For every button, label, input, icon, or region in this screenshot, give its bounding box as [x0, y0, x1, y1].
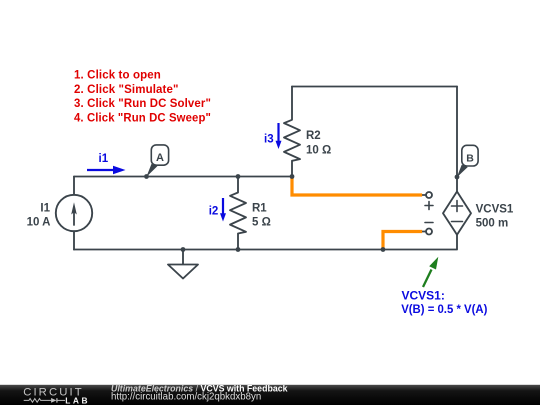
node A dot: [144, 174, 149, 179]
svg-text:500 m: 500 m: [476, 218, 509, 230]
svg-text:i3: i3: [264, 134, 274, 146]
wire top horizontal: [292, 86, 457, 88]
VCVS1 control plus label: [425, 202, 433, 210]
svg-text:R2: R2: [306, 130, 321, 142]
svg-text:i2: i2: [209, 206, 219, 218]
svg-text:A: A: [156, 152, 164, 164]
svg-text:I1: I1: [40, 202, 50, 214]
node B callout: [457, 145, 478, 177]
resistor R1: [230, 177, 246, 250]
current source I1 circle: [56, 195, 92, 231]
wire bottom horizontal: [74, 235, 457, 250]
svg-text:1. Click to open: 1. Click to open: [74, 70, 161, 82]
svg-text:2. Click "Simulate": 2. Click "Simulate": [74, 84, 179, 96]
VCVS1 control terminal nc+: [426, 192, 432, 198]
svg-text:V(B) = 0.5 * V(A): V(B) = 0.5 * V(A): [401, 302, 487, 316]
svg-text:10 Ω: 10 Ω: [306, 144, 331, 156]
current annotations blue: [87, 123, 282, 222]
wire right vertical to VCVS top: [456, 87, 458, 192]
svg-text:B: B: [466, 152, 474, 164]
svg-text:3. Click "Run DC Solver": 3. Click "Run DC Solver": [74, 98, 211, 110]
orange wire upper: [292, 178, 421, 195]
VCVS1 control minus label: [425, 222, 433, 224]
component labels: [27, 130, 514, 230]
VCVS1 internal minus: [452, 221, 463, 223]
red instruction text: [74, 70, 211, 125]
junction R1 bottom: [236, 247, 241, 252]
blue VCVS1 annotation text: [401, 288, 487, 316]
junction ground: [181, 247, 186, 252]
junction dots: [144, 174, 459, 252]
circuitlab logo: [23, 386, 84, 402]
svg-text:5 Ω: 5 Ω: [252, 217, 271, 229]
junction R1 top: [236, 174, 241, 179]
VCVS1 control terminal leads: [421, 195, 427, 232]
wire top-left horizontal A-net: [74, 176, 292, 178]
current source I1 leads: [73, 177, 75, 250]
orange net wires: [292, 178, 421, 248]
svg-text:VCVS1: VCVS1: [476, 203, 514, 215]
current source I1 arrow: [73, 208, 75, 225]
junction R2 bottom: [290, 174, 295, 179]
svg-text:http://circuitlab.com/ckj2qbkd: http://circuitlab.com/ckj2qbkdxb8yn: [111, 391, 261, 402]
svg-text:4. Click "Run DC Sweep": 4. Click "Run DC Sweep": [74, 112, 211, 124]
VCVS1 control terminal nc-: [426, 229, 432, 235]
ground: [168, 250, 198, 279]
svg-text:VCVS1:: VCVS1:: [402, 288, 445, 302]
VCVS1 internal plus: [452, 201, 463, 212]
bottom bar: [0, 384, 540, 405]
VCVS1 diamond body: [443, 192, 471, 235]
junction orange lower: [381, 247, 386, 252]
green annotation arrow: [423, 257, 438, 287]
orange wire lower: [383, 232, 421, 249]
node B dot: [455, 175, 460, 180]
svg-text:R1: R1: [252, 202, 267, 214]
resistor R2: [284, 87, 300, 177]
node A callout: [146, 145, 168, 177]
svg-text:10 A: 10 A: [27, 217, 51, 229]
svg-text:LAB: LAB: [65, 396, 90, 405]
svg-text:i1: i1: [99, 153, 109, 165]
